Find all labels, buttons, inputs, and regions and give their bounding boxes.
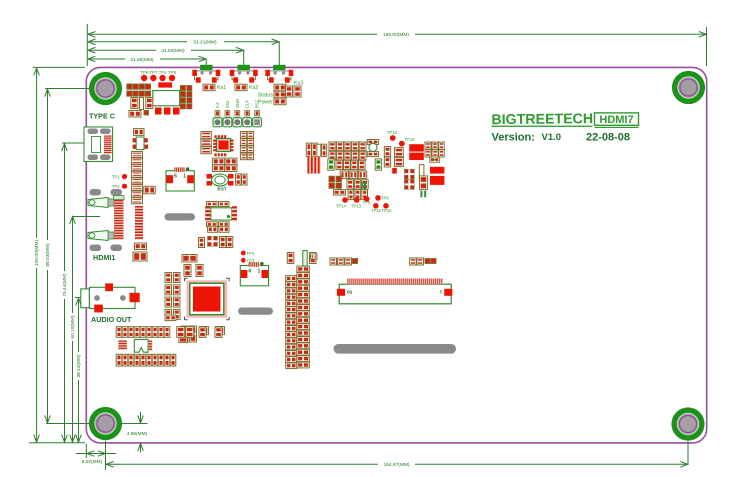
test point TP5 [169, 75, 175, 81]
extension line left edge (bottom) [85, 444, 87, 458]
svg-text:79.44(MM): 79.44(MM) [62, 273, 68, 297]
test point TP2 [122, 184, 127, 189]
svg-text:100.00(MM): 100.00(MM) [34, 240, 40, 266]
test point TP8 [375, 195, 381, 201]
transformer striped block [307, 157, 321, 174]
svg-text:DIO: DIO [225, 100, 230, 108]
dimension 4.96(MM) [140, 412, 142, 424]
pads pair above chip-left [165, 315, 176, 321]
pad row A (9x, y327) [116, 327, 122, 338]
svg-text:41.53(MM): 41.53(MM) [161, 48, 185, 54]
pads grid right (3x2) [425, 142, 431, 149]
svg-text:TP7: TP7 [149, 70, 158, 75]
pad row C (10x, y354) [116, 354, 122, 366]
cluster small pad [334, 190, 346, 195]
connector U-USB2 (6-1) [240, 266, 268, 286]
extension line hole H1 center [45, 88, 90, 90]
svg-text:38.44(MM): 38.44(MM) [76, 354, 82, 378]
U1 bottom pads [155, 108, 162, 115]
resistor pack pads column (x132,y152-203) [132, 152, 143, 158]
pads above FPC left [330, 258, 337, 265]
test point TP6 [141, 75, 147, 81]
mounting hole H3 (bottom-left) [89, 407, 122, 440]
pads below RP column [135, 243, 147, 250]
white-cross pads pair [405, 169, 415, 179]
pads right of Ks3 [286, 86, 293, 97]
LED D1 (green) [328, 159, 334, 170]
dimension 41.53(MM) to Ks2 [87, 49, 156, 51]
dimension 89.03(MM) [47, 89, 49, 241]
LED Power [274, 98, 286, 105]
svg-text:HDMI1: HDMI1 [93, 253, 115, 262]
svg-text:89.03(MM): 89.03(MM) [45, 243, 51, 267]
svg-text:TP5: TP5 [168, 70, 177, 75]
test point TP16 [390, 135, 396, 141]
pads row x198-233 y236 [208, 236, 218, 246]
extension line hole H3 center (bottom) [105, 441, 107, 471]
mounting hole H2 (top-right) [672, 71, 705, 104]
svg-text:V1.0: V1.0 [542, 132, 562, 143]
svg-text:TP4: TP4 [159, 70, 168, 75]
svg-text:TP12: TP12 [381, 208, 392, 213]
PCB board outline [86, 67, 706, 443]
red block R1 [430, 167, 444, 174]
svg-text:4.96(MM): 4.96(MM) [127, 431, 148, 437]
test point TP4 [159, 75, 165, 81]
test point TP15 [399, 141, 405, 147]
dimension 164.97(MM) [106, 463, 379, 465]
pad column A (x286) [286, 276, 297, 282]
dimension 60.10(MM) [72, 216, 74, 313]
svg-text:TP16: TP16 [387, 130, 398, 135]
extension line top edge (left) [33, 66, 85, 68]
svg-text:TP14: TP14 [336, 203, 347, 208]
svg-text:22-08-08: 22-08-08 [586, 131, 630, 143]
header J4 pins [213, 118, 222, 127]
slot S2 [238, 308, 273, 315]
pads below U2 rows [213, 158, 225, 165]
svg-text:RST: RST [255, 99, 260, 108]
slot S1 [165, 213, 196, 220]
pads 2x2 white-cross (x144,y186) [144, 186, 155, 194]
svg-text:CLK: CLK [245, 100, 250, 109]
pads atop columns [287, 253, 294, 264]
red block R2 [430, 176, 444, 185]
pads left of U2 (x201) [201, 132, 211, 139]
IC U3 SOIC-8 [211, 208, 232, 220]
svg-text:5.02(MM): 5.02(MM) [82, 459, 103, 465]
pad array near U1 (2x4) [127, 84, 132, 89]
H pad [420, 176, 428, 190]
logo HDMI7 box [595, 113, 639, 125]
connector J1 TYPE C [84, 127, 113, 162]
slot S3 [334, 344, 457, 354]
test point TP11 [373, 203, 379, 209]
cluster lower pads + green bars [348, 190, 354, 200]
push button Ks1 [200, 65, 212, 70]
test point TP3 [241, 258, 246, 263]
LED D2 (green) [375, 159, 381, 170]
svg-text:164.97(MM): 164.97(MM) [384, 462, 410, 468]
extension line right (top) [706, 27, 708, 66]
svg-text:6: 6 [248, 268, 251, 274]
pads left of chip [182, 255, 197, 263]
extension line AUDIO OUT [75, 297, 100, 299]
test point TP14 [342, 197, 348, 203]
pad column B (x297) [297, 266, 309, 272]
dimension 51.21(MM) to Ks3 [87, 41, 187, 43]
svg-text:TP8: TP8 [381, 196, 389, 201]
svg-text:TP9: TP9 [363, 200, 371, 205]
svg-text:GND: GND [235, 99, 240, 109]
capacitor bank C8 [409, 144, 424, 151]
inductor with circle [367, 140, 378, 145]
pads left of U1 [131, 98, 138, 109]
pad grid right of U1 (2x4) [180, 86, 185, 91]
svg-text:TP3: TP3 [247, 258, 255, 263]
svg-text:TP6: TP6 [140, 70, 149, 75]
svg-text:HDMI7: HDMI7 [599, 114, 633, 126]
connector J3 AUDIO OUT jack [81, 289, 90, 308]
dimension 79.44(MM) [64, 143, 66, 271]
pads above chip row1 [208, 226, 218, 232]
svg-text:TP15: TP15 [405, 137, 416, 142]
oscillator RST [207, 174, 213, 179]
pads right of RST (2x2) [236, 174, 242, 185]
svg-text:TP13: TP13 [351, 203, 362, 208]
mounting hole H4 (bottom-right) [671, 407, 704, 440]
pads above FPC right [410, 258, 417, 265]
svg-text:Ks1: Ks1 [217, 85, 226, 91]
svg-text:Version:: Version: [492, 131, 535, 143]
extension line left (top) [86, 24, 88, 66]
test point TP9 [364, 196, 370, 202]
pads right of audio (2x4) [165, 273, 172, 283]
svg-text:Power: Power [258, 100, 273, 106]
svg-text:TP2: TP2 [112, 184, 120, 189]
pads col x394 [395, 148, 404, 157]
svg-text:165.00(MM): 165.00(MM) [383, 32, 409, 38]
svg-text:60.10(MM): 60.10(MM) [70, 315, 76, 339]
cluster 2x2 squares [329, 176, 334, 181]
test point TP4b [241, 251, 246, 256]
connector J5 FPC 50-pin [339, 284, 451, 304]
extension line hole H3 center (left) [46, 423, 92, 425]
dimension 5.02(MM) [86, 453, 105, 455]
svg-text:TP4: TP4 [247, 251, 255, 256]
svg-text:6: 6 [174, 174, 177, 180]
slot pad [419, 165, 424, 181]
dimension 31.85(MM) to Ks1 [87, 58, 125, 60]
extension line hole H3 center (right) [121, 423, 148, 425]
svg-text:TYPE C: TYPE C [89, 112, 115, 121]
pads below TP15 [384, 147, 390, 157]
dimension 100.00(MM) [36, 67, 38, 238]
LED pads above Status [274, 84, 286, 91]
svg-text:TP1: TP1 [112, 174, 120, 179]
test point TP13 [354, 197, 360, 203]
test point TP12 [383, 203, 389, 209]
dimension 165.00(MM) [87, 33, 377, 35]
svg-text:Ks2: Ks2 [249, 85, 258, 91]
connector J2 HDMI1 [90, 189, 102, 196]
transistor Q1 (SOT) [134, 129, 145, 136]
push button Ks2 [238, 65, 250, 70]
pads right of row A [177, 327, 185, 338]
svg-text:RST: RST [217, 187, 226, 192]
svg-text:1: 1 [183, 174, 186, 180]
diode D3 [430, 157, 440, 162]
svg-text:Status: Status [258, 93, 274, 99]
svg-text:AUDIO OUT: AUDIO OUT [91, 315, 132, 324]
svg-text:3.3: 3.3 [215, 102, 220, 109]
test point TP1 [122, 174, 127, 179]
pads below chip [181, 326, 188, 342]
extension line hole H4 (bottom) [687, 441, 689, 464]
IC U1 body [153, 91, 180, 106]
buzzer footprint [134, 339, 148, 352]
green bars pair [420, 191, 422, 198]
cluster row4 pads [340, 171, 348, 179]
svg-text:51.21(MM): 51.21(MM) [193, 40, 217, 46]
IC U4 main chip (QFN) [187, 280, 228, 317]
LED Status [274, 91, 286, 98]
dimension 38.44(MM) [78, 298, 80, 353]
cluster row5 pads [347, 180, 353, 189]
cluster C4 grid (5x2) [329, 142, 336, 151]
svg-text:31.85(MM): 31.85(MM) [130, 57, 154, 63]
extension line bottom edge (left) [29, 442, 85, 444]
connector U-USB1 (6-1) [166, 171, 194, 191]
push button Ks3 [273, 65, 285, 70]
IC U2 small QFN [217, 139, 231, 152]
mounting hole H1 (top-left) [89, 72, 122, 105]
test point TP7 [150, 75, 156, 81]
RP striped column (x135,y206) [135, 206, 143, 240]
extension line TYPE C [62, 142, 100, 144]
extension line HDMI1 [73, 216, 101, 218]
svg-text:50: 50 [347, 289, 353, 295]
pads right of U2 (2x4) [240, 132, 246, 139]
cluster C1 pads [306, 143, 311, 157]
cluster row3 pads [336, 160, 343, 169]
svg-text:1: 1 [439, 289, 442, 295]
svg-text:1: 1 [258, 268, 261, 274]
pads pair B [199, 327, 206, 337]
label Ks1 [203, 84, 215, 91]
capacitor pad C-top (solid red) [158, 82, 172, 87]
svg-text:TP11: TP11 [371, 208, 381, 213]
label Ks2 [235, 84, 247, 91]
